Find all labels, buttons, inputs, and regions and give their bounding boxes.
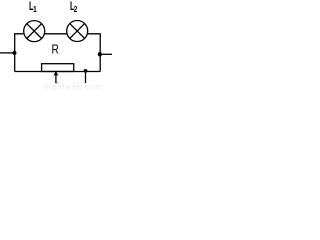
svg-text:2: 2 [74,4,78,14]
svg-text:manfen5.com: manfen5.com [44,83,103,92]
label L2 [70,1,77,15]
wire bottom rail [15,71,101,73]
wiper stem [55,75,57,83]
node left junction dot [13,51,17,55]
label L1 [29,1,37,15]
wire slider return drop [85,71,87,83]
wire right external lead [100,53,112,55]
lamp L2 [67,21,88,42]
wire between lamps [45,33,68,35]
wire lamp2 to top-right corner and down right rail [88,34,101,72]
node right junction dot [98,52,102,56]
wire top-left segment [15,34,24,72]
rheostat body rectangle [42,64,74,72]
svg-text:R: R [52,42,59,56]
lamp L1 [24,21,45,42]
rheostat wiper arrow [54,71,59,75]
wiper stem nub [56,82,58,84]
wire left external lead [0,52,15,54]
node bottom junction dot [84,69,88,73]
svg-text:1: 1 [33,4,37,14]
